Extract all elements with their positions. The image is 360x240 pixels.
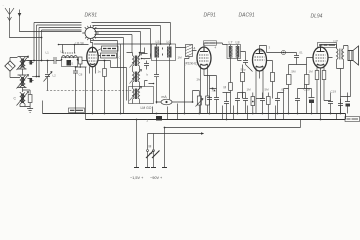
resistor R8 (287, 75, 292, 85)
wire DK91 anode out (98, 61, 126, 68)
capacitor C22 (338, 99, 343, 114)
svg-text:.01: .01 (212, 89, 217, 93)
wire antenna down (10, 22, 42, 38)
wire C15 top (278, 89, 289, 93)
resistor R6 (241, 73, 245, 82)
svg-text:(452kHz): (452kHz) (185, 62, 198, 66)
svg-text:L1: L1 (46, 51, 50, 55)
wire grid feed (121, 43, 171, 46)
wire DF91 anode top (204, 43, 223, 47)
wire DL94 pins (317, 58, 333, 120)
wire DAC91 top (260, 46, 267, 53)
svg-text:C19: C19 (331, 90, 337, 94)
wire bus L2 (37, 25, 82, 77)
wire cap row top (204, 76, 217, 93)
tube DK91 (87, 47, 98, 66)
coil L1a (20, 57, 22, 70)
wire DK91 to boxes (98, 49, 102, 56)
electrolytic C19 (345, 97, 350, 114)
wire bus L3 (39, 28, 82, 77)
capacitor C18 (328, 97, 333, 114)
capacitor C14 (260, 93, 265, 114)
gang capacitor CV1 (44, 61, 53, 91)
svg-text:L2: L2 (53, 74, 57, 78)
capacitor C6 (154, 75, 159, 104)
resistor R10 (196, 91, 204, 114)
capacitor C15 (275, 93, 280, 114)
svg-text:L8: L8 (236, 41, 240, 45)
capacitor C5 (144, 61, 149, 70)
junction dot T1 (153, 83, 155, 85)
wire C9 down (297, 58, 313, 65)
svg-text:DAC91: DAC91 (239, 13, 255, 19)
wire battery drop 2 (147, 134, 149, 168)
jack J1 (282, 51, 286, 55)
tube DAC91 (253, 49, 267, 71)
wire switch to v2 (91, 40, 118, 42)
junction dot meter line (156, 101, 194, 103)
main row wire y60 (25, 60, 87, 62)
svg-text:1s: 1s (98, 70, 102, 74)
resistor R13 (267, 93, 271, 120)
coil pack unit 2 (130, 70, 142, 86)
svg-text:M: M (224, 86, 227, 90)
svg-text:C8: C8 (79, 73, 83, 77)
wire switch right r5 (95, 35, 133, 53)
wire DAC91 pins (256, 71, 263, 114)
capacitor C9 (294, 56, 299, 61)
wire T1 out (149, 48, 186, 100)
resistor R5 (103, 61, 107, 114)
wire row joins 2 (238, 93, 263, 99)
svg-text:.5M: .5M (291, 70, 297, 74)
IF transformer T1 (152, 40, 176, 61)
wire mid vertical v3 (117, 41, 119, 68)
trimmer arrow L2 (17, 75, 29, 89)
svg-text:1M: 1M (178, 56, 183, 60)
svg-text:L3: L3 (61, 50, 65, 54)
wire R6 (242, 65, 244, 99)
junction dots pack feed (139, 43, 172, 59)
wire bus left riser (42, 101, 44, 114)
wire coil1 taps (18, 57, 28, 76)
wire osc top feed (59, 45, 89, 54)
wire right top joins (324, 93, 348, 101)
core L2 (21, 77, 23, 86)
wire coil2 taps (18, 75, 27, 92)
wire L3 bottom (20, 90, 30, 107)
supply label box (345, 117, 360, 122)
junction dot row (212, 88, 216, 92)
svg-text:2M: 2M (197, 78, 202, 82)
wire DL94 anode (321, 45, 337, 48)
core L1 (21, 59, 23, 68)
capacitor C4 (73, 67, 78, 114)
junction dots osc feed (58, 44, 76, 46)
wire tap row 76 (32, 76, 39, 78)
earth arrow E1 (18, 10, 22, 17)
svg-text:−90V +: −90V + (150, 176, 163, 180)
wire switch to v3 (94, 43, 121, 45)
IF label box 3 (204, 41, 217, 45)
wire R9 (306, 65, 308, 114)
junction dots row (47, 60, 81, 68)
IF label box 2 (101, 53, 117, 58)
wire LT feed line (148, 133, 204, 135)
svg-text:5M: 5M (265, 88, 270, 92)
svg-text:1M: 1M (309, 70, 314, 74)
IF transformer T2 (227, 41, 241, 61)
wire switch right r4 (95, 32, 141, 53)
band switch S1 (82, 25, 98, 40)
oscillator coil L4 (61, 53, 79, 67)
coil L2b (24, 75, 26, 88)
gang dashed link (47, 90, 134, 92)
meter M1 (157, 95, 193, 105)
svg-text:50p: 50p (241, 68, 246, 72)
output transformer T3 (334, 40, 344, 63)
loudspeaker LS (348, 46, 359, 65)
wire DF91 pins down (201, 69, 205, 114)
wire DK91 top (91, 41, 93, 48)
coil pack box (129, 87, 154, 104)
resistor R14 (224, 83, 233, 114)
ground G1 (27, 107, 33, 113)
junction dots bus (92, 113, 342, 129)
trimmer arrow L1 (17, 56, 29, 70)
row wire y66 (76, 67, 87, 114)
wire mid vertical v1 (120, 44, 122, 101)
coil pack unit 3 (130, 86, 142, 101)
resistor R3 (79, 57, 83, 67)
coil L1b (24, 57, 26, 70)
capacitor C21 (224, 98, 229, 120)
wire switch right r1 (92, 23, 171, 45)
capacitor C12 (235, 93, 240, 114)
resistor R7 (271, 73, 275, 82)
wire right verticals (298, 85, 312, 93)
battery terminal marks (134, 167, 167, 169)
wire DAC91 to DL94 (267, 53, 297, 56)
wire T2 to DAC91 (223, 45, 253, 83)
wire speaker (337, 46, 351, 114)
capacitor C10 (207, 93, 212, 114)
svg-text:R1: R1 (70, 62, 74, 66)
wire pack bottom (133, 81, 148, 104)
svg-text:DF91: DF91 (204, 13, 216, 19)
wire mid verticals to bus (121, 68, 337, 120)
supply bus lower (86, 119, 346, 121)
svg-text:2p: 2p (29, 60, 33, 64)
ground bus main (43, 114, 346, 120)
junction dot anode row (104, 60, 106, 62)
svg-text:DK91: DK91 (85, 13, 98, 19)
wire battery drop 1 (136, 120, 138, 168)
fuse box on bus (156, 116, 162, 121)
svg-text:LB Sh: LB Sh (76, 42, 85, 46)
svg-text:LM GO: LM GO (141, 106, 152, 110)
svg-text:4: 4 (194, 47, 196, 51)
coil L3 (14, 92, 29, 106)
svg-text:mA: mA (162, 95, 168, 99)
wire switch right r3 (94, 29, 151, 59)
wire DK91 pins (90, 67, 96, 114)
svg-text:−1,5V +: −1,5V + (130, 176, 144, 180)
svg-text:1M: 1M (247, 88, 252, 92)
electrolytic C17 (304, 88, 315, 114)
wire bus L4 (42, 30, 82, 61)
wire R7 (267, 61, 273, 99)
resistor R2 (28, 91, 32, 107)
wire switch to v1 (95, 37, 124, 39)
arrow LT feed (201, 132, 204, 134)
coil L2a (20, 75, 22, 88)
svg-text:.01: .01 (281, 88, 286, 92)
capacitor C13 (243, 93, 248, 114)
wire C21 top (223, 93, 231, 98)
tube DF91 (197, 47, 211, 69)
capacitor C7 (243, 61, 248, 65)
coil pack unit 1 (130, 53, 142, 70)
wire bus L1 top (34, 23, 82, 61)
svg-text:M: M (149, 145, 152, 149)
coupling cap C3 (54, 57, 56, 64)
wire coil pack tops (127, 48, 151, 57)
antenna A1 (5, 8, 14, 22)
wire battery drop 3 (153, 134, 155, 168)
resistor R11 (206, 69, 210, 114)
svg-text:LP: LP (334, 40, 339, 44)
resistor R16 (322, 71, 326, 80)
trimmer C2 (28, 78, 34, 83)
junction dots left cluster (33, 37, 42, 78)
switch S2 (146, 145, 160, 159)
wire R8 (289, 65, 297, 114)
svg-text:L6: L6 (167, 40, 171, 44)
resistor R15 (315, 71, 319, 80)
wire pot top (193, 91, 200, 103)
svg-text:.01: .01 (299, 51, 304, 55)
svg-text:..: .. (3, 3, 5, 7)
junction dot 2 (252, 101, 254, 103)
tube DL94 label box (318, 43, 337, 48)
wire switch right r2 (93, 26, 161, 45)
ground label box (69, 108, 85, 113)
filter box X1 (186, 45, 193, 57)
svg-text:DL94: DL94 (311, 14, 323, 20)
svg-text:L5: L5 (156, 40, 160, 44)
wire mid vertical v2 (123, 38, 125, 101)
capacitor C11 (214, 93, 219, 114)
value labels (tiny) (29, 46, 337, 123)
capacitor C16 (295, 93, 300, 114)
resistor R12 (251, 93, 255, 114)
IF label box 1 (102, 46, 119, 51)
tube DL94 (313, 47, 328, 68)
trimmer C1 (28, 60, 34, 65)
wire earth down (20, 17, 82, 32)
svg-text:L7: L7 (229, 41, 233, 45)
frame aerial diamond (5, 58, 20, 78)
wire HT feed line (165, 120, 301, 168)
resistor R9 (305, 75, 310, 85)
wire bus link (85, 114, 87, 120)
wire X1 to DF91 (185, 51, 197, 114)
